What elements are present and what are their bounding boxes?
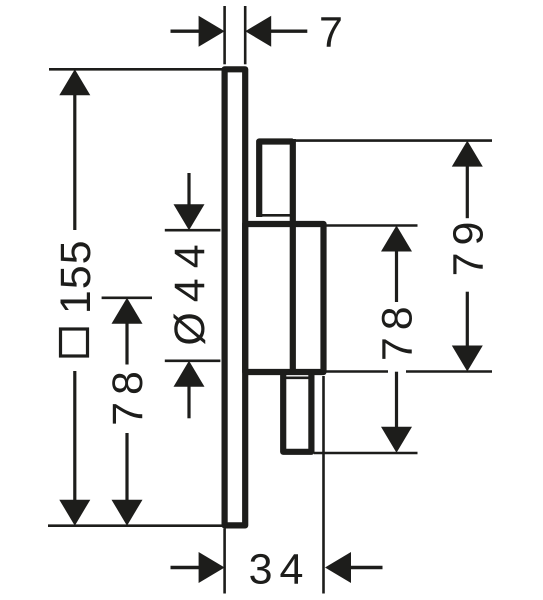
- extension line 34-right: [322, 376, 325, 594]
- arrow 79 top (up): [452, 141, 483, 167]
- dim 34 right tail: [350, 566, 383, 569]
- extension line 79-top: [296, 139, 493, 142]
- extension line 7-left: [223, 6, 226, 64]
- dim line d44 upper: [187, 173, 190, 206]
- arrow 78-left bottom (down): [112, 500, 143, 526]
- wall plate (7mm escutcheon, side view): [225, 69, 246, 525]
- dim line 78-left lower segment: [125, 433, 128, 502]
- label square 155 (square symbol): [61, 329, 88, 356]
- arrow 79 bottom (down): [452, 346, 483, 372]
- extension line 34-left: [223, 529, 226, 594]
- dim line 155 upper segment: [73, 93, 76, 230]
- tick d44 bottom: [165, 359, 221, 362]
- arrow 7 left (right-pointing): [199, 16, 225, 47]
- arrow 34 right (left-pointing): [325, 552, 351, 583]
- dim line 78-left upper segment: [125, 322, 128, 365]
- tick 78-left top: [102, 296, 152, 299]
- arrow 78-right top (up): [381, 226, 412, 252]
- extension line 79/body bottom right segment: [406, 370, 492, 373]
- dim line d44 lower: [187, 385, 190, 419]
- arrow d44 top (down): [174, 204, 205, 230]
- svg-text:34: 34: [249, 546, 311, 594]
- arrow 7 right (left-pointing): [245, 16, 271, 47]
- dim line 78-right upper segment: [395, 250, 398, 303]
- svg-text:79: 79: [444, 215, 492, 277]
- extension line 78-right top: [326, 224, 418, 227]
- arrow 78-right bottom (down): [381, 427, 412, 453]
- arrow 155 top (up): [59, 69, 90, 95]
- extension line 78-right bottom (lower box): [314, 452, 418, 455]
- extension line 7-right: [244, 6, 247, 64]
- upper handle box (left+top edges): [259, 142, 293, 218]
- extension line 79/body bottom left segment: [326, 370, 388, 373]
- main body (middle box): [245, 224, 323, 372]
- arrow 78-left top (up): [112, 298, 143, 324]
- dim line 79 upper segment: [466, 165, 469, 219]
- dim 7 right tail: [270, 30, 307, 33]
- dim line 155 lower segment: [73, 371, 76, 502]
- lower box top seam: [286, 376, 309, 379]
- extension line 155-top: [49, 68, 230, 71]
- upper box bottom seam: [262, 214, 290, 217]
- dim line 78-right lower segment: [395, 372, 398, 429]
- lower handle box (left+bottom+right edges): [283, 372, 311, 452]
- svg-text:78: 78: [104, 364, 152, 426]
- dim 34 left tail: [171, 566, 200, 569]
- extension line 155/78 bottom: [48, 524, 243, 527]
- tick d44 top: [165, 229, 221, 232]
- svg-text:7: 7: [319, 8, 343, 56]
- dim 7 left tail: [171, 30, 200, 33]
- dim line 79 lower segment: [466, 292, 469, 348]
- arrow 34 left (right-pointing): [199, 552, 225, 583]
- svg-text:155: 155: [52, 239, 100, 314]
- svg-text:Ø44: Ø44: [166, 234, 214, 345]
- cartridge line (upper box right edge down to body bottom): [290, 139, 296, 372]
- svg-text:78: 78: [374, 299, 422, 361]
- arrow d44 bottom (up): [174, 361, 205, 387]
- arrow 155 bottom (down): [59, 500, 90, 526]
